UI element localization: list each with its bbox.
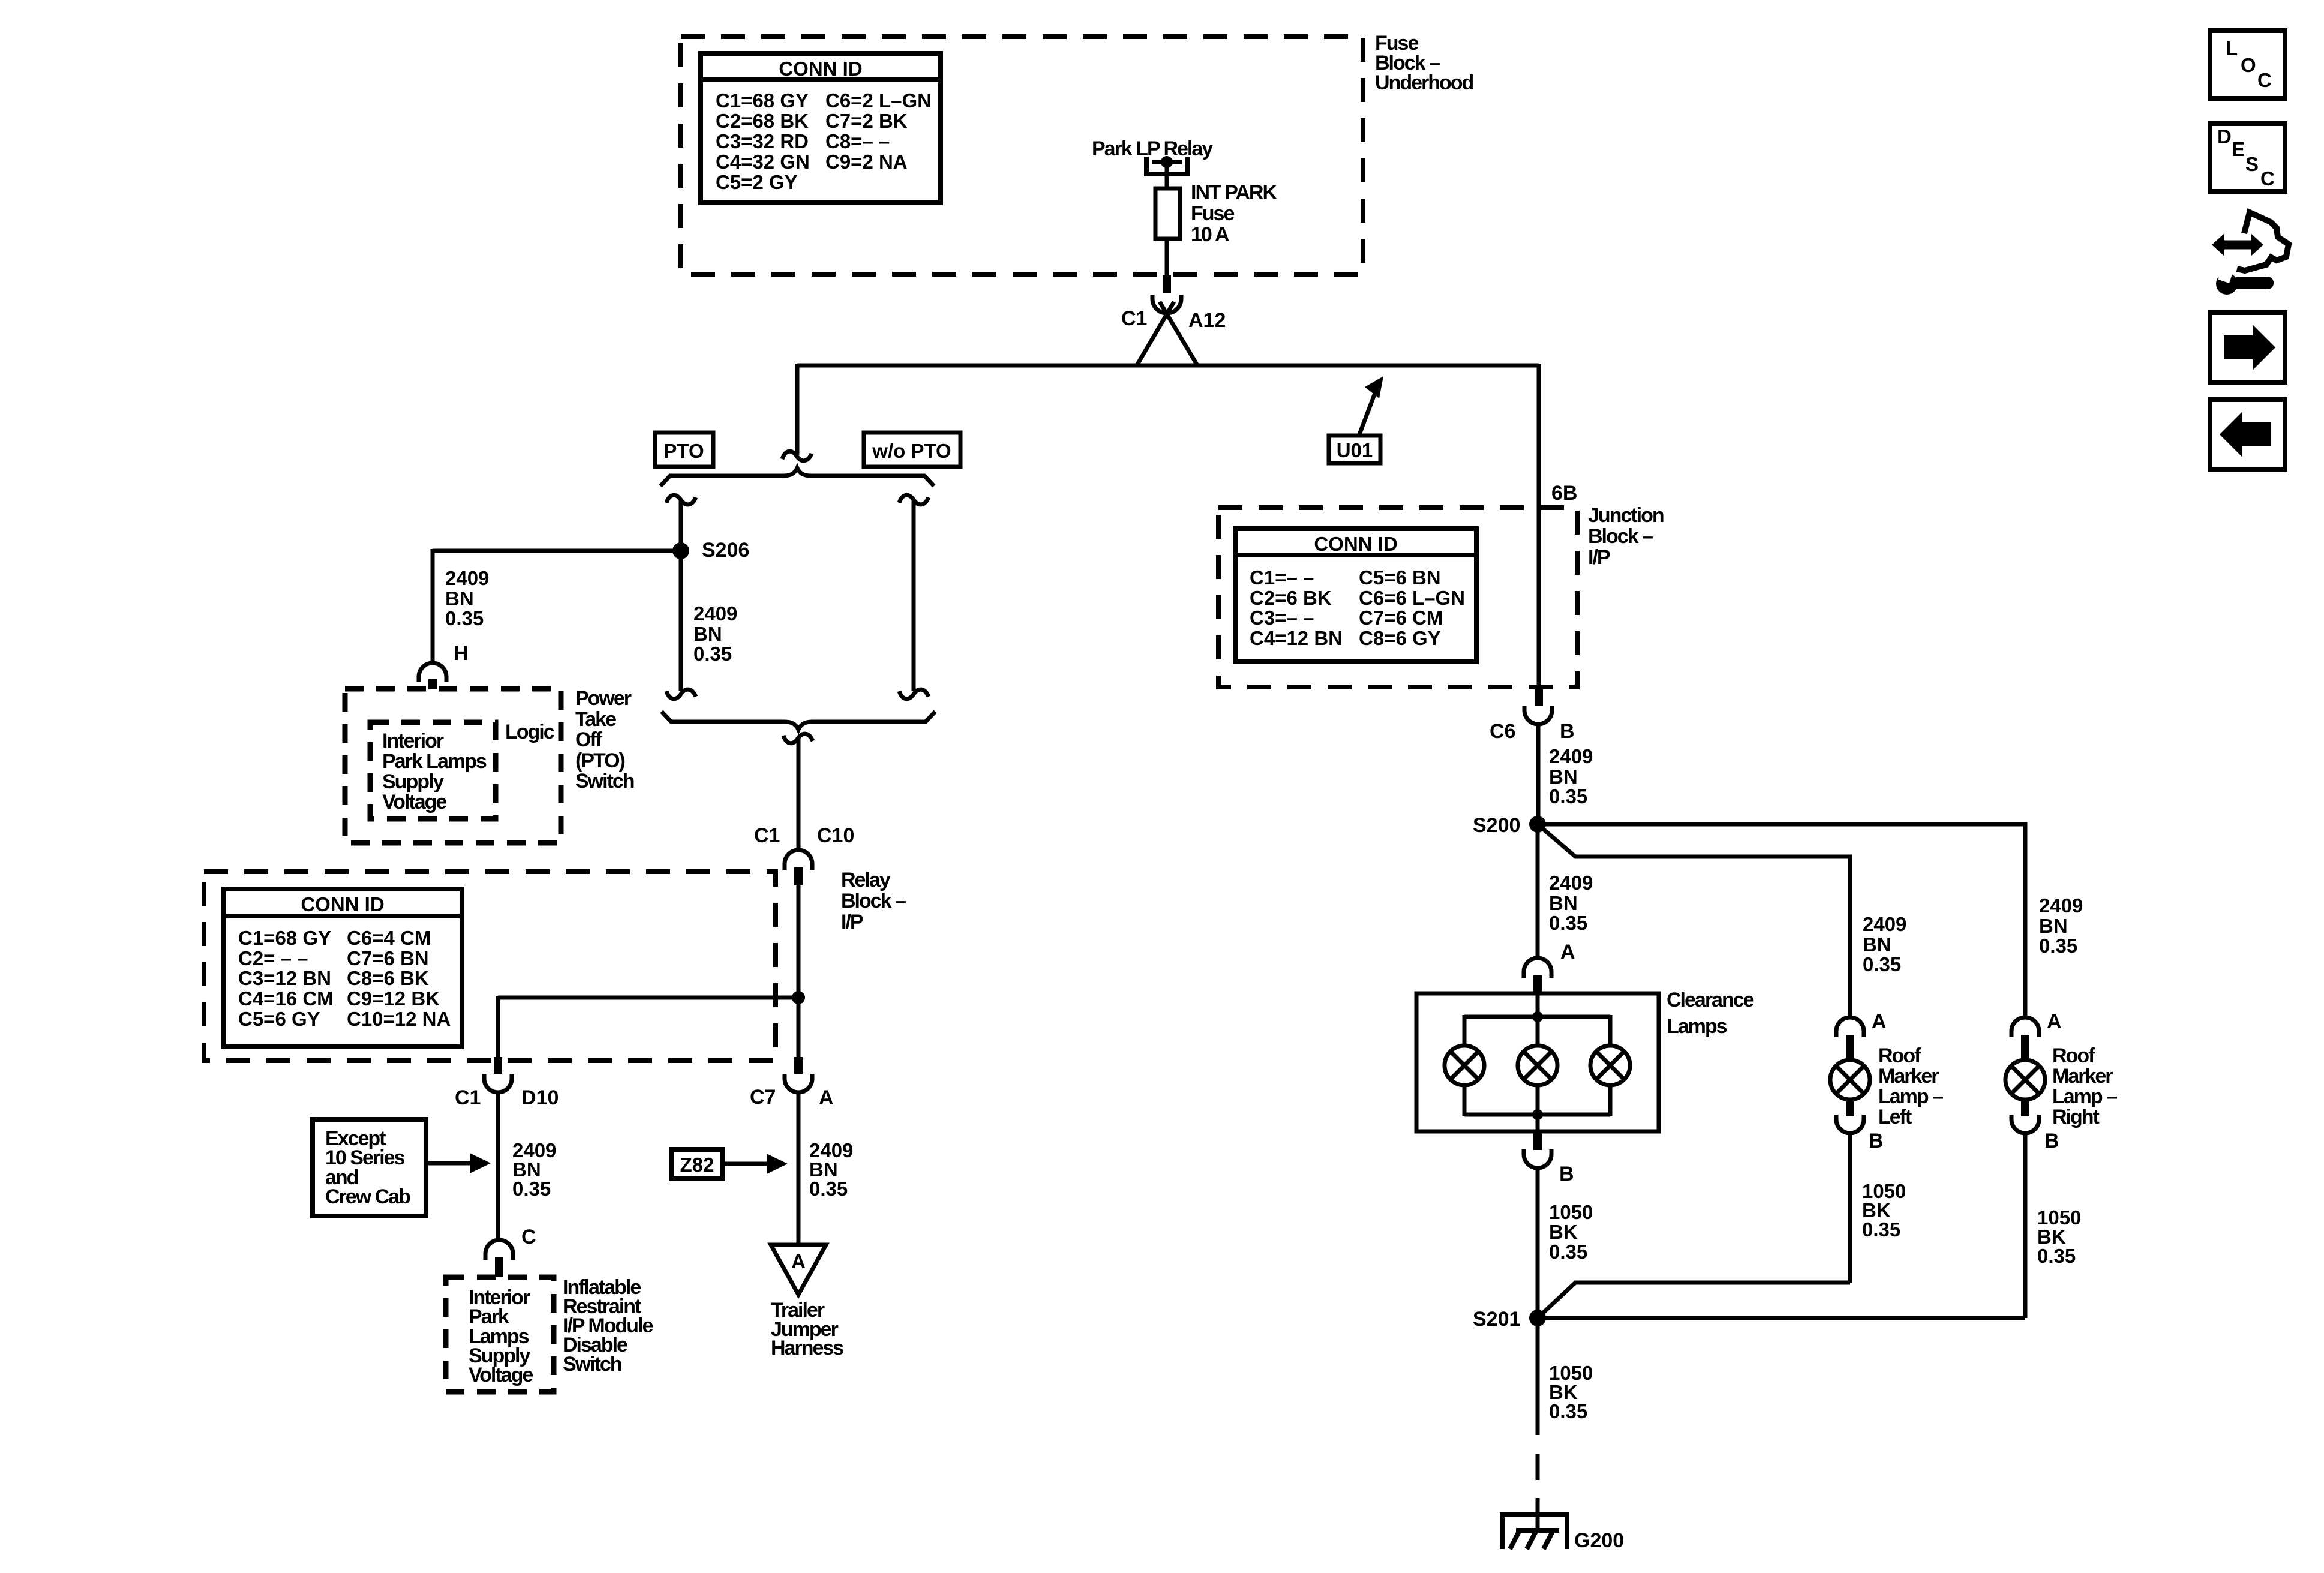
connector B cup (right marker): [2011, 1115, 2039, 1133]
brace top (options split): [660, 468, 934, 486]
U01 callout box: [1329, 436, 1380, 463]
svg-text:Marker: Marker: [2052, 1065, 2113, 1088]
svg-text:2409: 2409: [1863, 913, 1906, 935]
hook left top: [666, 495, 696, 505]
ground G200: [1502, 1506, 1567, 1549]
connector C7/A female cup: [785, 1074, 812, 1092]
connector B male pin (clearance): [1533, 1131, 1542, 1150]
connector C7/A male pin: [794, 1057, 803, 1074]
svg-text:Logic: Logic: [505, 721, 554, 743]
arrow Z82 to wire: [723, 1154, 788, 1174]
svg-text:S: S: [2245, 153, 2259, 175]
connector B cup (left marker): [1836, 1115, 1864, 1133]
svg-text:C3=– –: C3=– –: [1250, 607, 1314, 629]
label Relay Block - I/P: [841, 869, 906, 933]
CONN ID table (fuse block): [701, 53, 941, 203]
wire C6 to S200: [1536, 724, 1541, 818]
roof marker lamp left bulb: [1830, 1060, 1870, 1100]
wire X split right: [1160, 302, 1197, 365]
svg-text:Harness: Harness: [771, 1337, 843, 1359]
svg-text:Supply: Supply: [382, 770, 444, 793]
svg-text:C7=2 BK: C7=2 BK: [825, 110, 908, 132]
svg-text:C1=– –: C1=– –: [1250, 566, 1314, 589]
svg-text:Fuse: Fuse: [1191, 202, 1234, 225]
clearance lamp left: [1445, 1046, 1484, 1085]
connector H male pin: [428, 679, 437, 689]
svg-text:Crew Cab: Crew Cab: [325, 1185, 410, 1208]
svg-text:Switch: Switch: [563, 1353, 621, 1376]
wire relay to fuse: [1165, 162, 1169, 188]
roof marker lamp left B pin: [1846, 1100, 1854, 1116]
U01 arrow: [1359, 376, 1383, 434]
svg-text:A: A: [1560, 941, 1575, 963]
wire right branch down: [1537, 364, 1541, 687]
svg-text:C5=2 GY: C5=2 GY: [716, 171, 798, 193]
svg-text:C8=6 BK: C8=6 BK: [347, 967, 429, 989]
connector B female cup (clearance): [1524, 1149, 1551, 1168]
splice S201: [1529, 1310, 1546, 1326]
fuse block underhood dashed box: [681, 37, 1363, 274]
svg-text:Block –: Block –: [841, 890, 906, 912]
label Roof Marker Lamp - Left: [1878, 1044, 1943, 1128]
svg-text:Roof: Roof: [2052, 1044, 2095, 1067]
label 2409 BN 0.35 (H branch): [445, 567, 489, 629]
svg-text:Roof: Roof: [1878, 1044, 1921, 1067]
wire S206 to H: [433, 549, 681, 663]
label Power Take Off (PTO) Switch: [575, 687, 634, 792]
PTO switch dashed box: [345, 689, 561, 843]
icon LOC box: [2210, 31, 2285, 98]
fuse INT PARK 10A: [1155, 188, 1180, 239]
svg-text:C1: C1: [455, 1086, 481, 1109]
label Fuse Block - Underhood: [1375, 32, 1473, 94]
svg-text:A: A: [1872, 1010, 1887, 1033]
CONN ID table (relay block): [224, 889, 462, 1047]
svg-text:C4=16 CM: C4=16 CM: [238, 987, 334, 1010]
svg-text:Switch: Switch: [575, 770, 634, 792]
svg-text:C4=32 GN: C4=32 GN: [716, 151, 810, 173]
PTO option box: [655, 433, 713, 467]
clearance lamp bus bottom: [1464, 1085, 1610, 1131]
svg-text:C6: C6: [1490, 720, 1515, 743]
svg-text:Right: Right: [2052, 1106, 2100, 1128]
label 2409 BN 0.35 (C7 wire): [809, 1139, 853, 1200]
svg-text:D10: D10: [521, 1086, 559, 1109]
roof marker lamp right B pin: [2021, 1100, 2029, 1116]
label 1050 BK 0.35 (ground wire): [1549, 1362, 1593, 1422]
label INT PARK Fuse 10 A: [1191, 181, 1277, 246]
svg-text:Off: Off: [575, 728, 603, 751]
label Interior Park Lamps Supply Voltage (logic): [382, 730, 487, 813]
svg-text:C1=68 GY: C1=68 GY: [238, 927, 331, 949]
connector H female dome: [419, 663, 446, 682]
svg-text:C4=12 BN: C4=12 BN: [1250, 627, 1343, 649]
svg-text:Block –: Block –: [1588, 525, 1653, 548]
svg-text:C1: C1: [754, 824, 780, 847]
icon back arrow box: [2210, 400, 2285, 469]
svg-text:Lamp –: Lamp –: [1878, 1085, 1943, 1108]
clearance lamp bus top: [1464, 1011, 1610, 1046]
svg-text:G200: G200: [1574, 1529, 1624, 1552]
svg-text:C7: C7: [750, 1086, 776, 1109]
clearance lamp middle: [1518, 1046, 1557, 1085]
svg-text:L: L: [2226, 37, 2238, 59]
svg-text:Power: Power: [575, 687, 632, 710]
icon DESC box: [2210, 124, 2285, 191]
hook left bottom: [666, 689, 696, 699]
svg-text:C: C: [521, 1226, 536, 1248]
svg-text:O: O: [2241, 54, 2256, 76]
svg-text:Clearance: Clearance: [1667, 989, 1754, 1011]
label 1050 BK 0.35 (left marker): [1862, 1180, 1906, 1241]
svg-text:B: B: [1560, 720, 1575, 743]
svg-text:Underhood: Underhood: [1375, 71, 1473, 94]
svg-text:C: C: [2260, 167, 2275, 190]
interior park lamps supply voltage dashed box (PTO switch): [370, 722, 496, 819]
wire C1/D10 down: [496, 1092, 500, 1240]
svg-text:BN: BN: [1549, 892, 1578, 914]
connector A male pin (clearance): [1533, 975, 1542, 993]
wire through relay block: [797, 885, 801, 1057]
connector C1/D10 female cup: [484, 1074, 512, 1092]
wire merge to C1/C10: [797, 738, 801, 850]
label Trailer Jumper Harness: [771, 1299, 843, 1359]
wire left marker to S201: [1848, 1133, 1852, 1283]
svg-text:A: A: [791, 1250, 806, 1272]
svg-text:0.35: 0.35: [512, 1178, 551, 1200]
svg-text:C3=32 RD: C3=32 RD: [716, 130, 809, 152]
svg-text:0.35: 0.35: [693, 643, 732, 665]
svg-text:C: C: [2257, 69, 2272, 91]
svg-text:E: E: [2232, 138, 2245, 160]
trailer jumper harness triangle A: [771, 1245, 826, 1295]
relay block I/P dashed box: [204, 872, 776, 1061]
svg-text:I/P: I/P: [1588, 546, 1610, 569]
svg-text:Voltage: Voltage: [382, 791, 446, 813]
label Inflatable Restraint I/P Module Disable Switch: [563, 1276, 653, 1376]
roof marker lamp left pin: [1846, 1035, 1854, 1061]
svg-text:B: B: [1869, 1130, 1884, 1152]
svg-text:A: A: [2047, 1010, 2062, 1033]
wire horizontal bus: [797, 364, 1539, 368]
connector A female dome (clearance): [1524, 958, 1551, 978]
label 1050 BK 0.35 (clearance B): [1549, 1201, 1593, 1263]
Z82 callout box: [671, 1149, 723, 1179]
icon forward arrow box: [2210, 313, 2285, 382]
svg-text:Voltage: Voltage: [469, 1364, 533, 1386]
label Junction Block - I/P: [1588, 504, 1664, 569]
svg-text:Interior: Interior: [382, 730, 444, 752]
svg-text:INT PARK: INT PARK: [1191, 181, 1277, 204]
roof marker lamp right pin: [2021, 1035, 2029, 1061]
svg-text:C2=68 BK: C2=68 BK: [716, 110, 809, 132]
label 2409 BN 0.35 (clearance): [1549, 872, 1593, 934]
relay K (Park LP Relay) terminal: [1146, 156, 1188, 174]
roof marker lamp right: connector A dome: [2011, 1017, 2039, 1037]
svg-text:Lamps: Lamps: [1667, 1015, 1727, 1038]
svg-text:I/P: I/P: [841, 911, 863, 933]
svg-text:C8=6 GY: C8=6 GY: [1359, 627, 1441, 649]
svg-text:0.35: 0.35: [445, 607, 484, 629]
svg-text:C2= – –: C2= – –: [238, 947, 308, 969]
wire branch to C1/D10: [498, 996, 798, 1057]
clearance lamp right: [1590, 1046, 1630, 1085]
wire w/o PTO branch vertical: [912, 500, 916, 691]
wire clearance B to S201: [1536, 1168, 1540, 1318]
svg-text:0.35: 0.35: [2039, 935, 2077, 957]
wire C7/A down: [797, 1092, 801, 1245]
svg-text:S201: S201: [1473, 1308, 1520, 1331]
svg-text:C1=68 GY: C1=68 GY: [716, 89, 809, 112]
splice S200: [1529, 816, 1546, 833]
svg-text:C10=12 NA: C10=12 NA: [347, 1008, 451, 1030]
svg-text:Z82: Z82: [680, 1154, 714, 1176]
connector C1/A12 male pin: [1163, 275, 1171, 293]
svg-text:A: A: [819, 1086, 834, 1109]
svg-text:PTO: PTO: [663, 440, 704, 462]
wire into clearance lamps: [1536, 993, 1540, 1046]
wire right marker to S201: [2023, 1133, 2028, 1318]
svg-text:(PTO): (PTO): [575, 749, 625, 772]
connector C1/C10 male pin: [794, 867, 803, 885]
svg-text:C9=2 NA: C9=2 NA: [825, 151, 908, 173]
svg-text:BN: BN: [2039, 915, 2068, 937]
svg-text:0.35: 0.35: [1862, 1218, 1900, 1241]
arrow except box to wire: [426, 1153, 491, 1173]
wire left branch down: [795, 364, 800, 455]
wire S200 to clearance lamps: [1536, 824, 1540, 957]
svg-text:0.35: 0.35: [2037, 1245, 2076, 1267]
wire S201 down: [1536, 1318, 1540, 1435]
wire break curl (left branch): [782, 451, 812, 461]
svg-text:BN: BN: [1863, 933, 1891, 956]
wire dashed to ground: [1536, 1454, 1540, 1514]
svg-text:CONN ID: CONN ID: [1314, 533, 1397, 555]
wire break curl below merge: [783, 734, 813, 743]
hook right bottom: [899, 689, 929, 699]
svg-text:C2=6 BK: C2=6 BK: [1250, 587, 1332, 609]
svg-text:S206: S206: [702, 539, 749, 562]
label 1050 BK 0.35 (right marker): [2037, 1206, 2081, 1267]
svg-text:C1: C1: [1121, 307, 1147, 330]
svg-text:BN: BN: [693, 623, 722, 645]
icon hand with wrench: [2212, 212, 2289, 295]
svg-text:0.35: 0.35: [1549, 1241, 1587, 1263]
label 2409 BN 0.35 (D10 wire): [512, 1139, 556, 1200]
connector C1/C10 female dome: [785, 850, 812, 870]
svg-text:Lamp –: Lamp –: [2052, 1085, 2117, 1108]
svg-text:0.35: 0.35: [1549, 1400, 1587, 1422]
svg-text:6B: 6B: [1551, 482, 1577, 505]
svg-text:Junction: Junction: [1588, 504, 1664, 527]
junction dot in relay block: [792, 991, 805, 1004]
wire S201 to right marker: [1538, 1316, 2025, 1320]
svg-text:CONN ID: CONN ID: [301, 893, 384, 915]
connector C6/B male pin: [1535, 687, 1543, 706]
svg-text:Relay: Relay: [841, 869, 891, 891]
wire S201 to left marker: [1538, 1283, 1850, 1318]
label 2409 BN 0.35 (right marker): [2039, 894, 2083, 957]
label Interior Park Lamps Supply Voltage: [469, 1286, 533, 1386]
svg-text:0.35: 0.35: [1549, 912, 1587, 934]
connector C female dome: [485, 1240, 513, 1260]
splice S206: [672, 542, 689, 559]
svg-text:BK: BK: [1549, 1221, 1578, 1243]
svg-text:10 A: 10 A: [1191, 223, 1229, 246]
svg-text:2409: 2409: [693, 602, 737, 625]
connector C1/A12 female cup: [1152, 295, 1181, 313]
wire S200 to roof marker left: [1538, 824, 1850, 1019]
svg-text:U01: U01: [1337, 439, 1373, 461]
svg-text:2409: 2409: [1549, 872, 1593, 894]
label 2409 BN 0.35 (left marker): [1863, 913, 1906, 975]
CONN ID table (junction block): [1235, 529, 1476, 662]
clearance lamps box: [1416, 993, 1659, 1131]
connector C male pin: [495, 1257, 503, 1277]
wire S200 to roof marker right: [1538, 824, 2025, 1018]
svg-text:C7=6 BN: C7=6 BN: [347, 947, 429, 969]
svg-text:w/o PTO: w/o PTO: [872, 440, 951, 462]
svg-text:C10: C10: [817, 824, 854, 847]
svg-text:Park Lamps: Park Lamps: [382, 750, 487, 773]
brace bottom (options merge): [662, 712, 935, 730]
svg-text:A12: A12: [1188, 309, 1226, 332]
connector C6/B female cup: [1524, 706, 1552, 724]
svg-text:BN: BN: [1549, 766, 1578, 788]
svg-text:C5=6 GY: C5=6 GY: [238, 1008, 320, 1030]
hook right top: [899, 495, 929, 505]
svg-text:1050: 1050: [1549, 1201, 1593, 1223]
label 2409 BN 0.35 (C6 wire): [1549, 745, 1593, 807]
svg-text:0.35: 0.35: [809, 1178, 848, 1200]
svg-text:Park LP Relay: Park LP Relay: [1092, 137, 1213, 160]
svg-text:C6=2 L–GN: C6=2 L–GN: [825, 89, 932, 112]
wire fuse to connector: [1165, 239, 1169, 275]
svg-text:0.35: 0.35: [1549, 785, 1587, 807]
roof marker lamp right bulb: [2005, 1060, 2045, 1100]
w/o PTO option box: [864, 433, 960, 467]
svg-text:2409: 2409: [2039, 894, 2083, 917]
svg-text:C6=4 CM: C6=4 CM: [347, 927, 431, 949]
svg-text:B: B: [1559, 1163, 1574, 1185]
svg-text:D: D: [2217, 125, 2232, 148]
except 10 series callout box: [313, 1119, 426, 1216]
svg-text:C7=6 CM: C7=6 CM: [1359, 607, 1443, 629]
svg-text:Left: Left: [1878, 1106, 1912, 1128]
svg-text:2409: 2409: [445, 567, 489, 589]
svg-text:C8=– –: C8=– –: [825, 130, 890, 152]
svg-text:0.35: 0.35: [1863, 953, 1901, 975]
svg-text:C6=6 L–GN: C6=6 L–GN: [1359, 587, 1465, 609]
svg-text:2409: 2409: [1549, 745, 1593, 767]
label Roof Marker Lamp - Right: [2052, 1044, 2117, 1128]
label Clearance Lamps: [1667, 989, 1754, 1038]
svg-text:S200: S200: [1473, 814, 1520, 837]
label 2409 BN 0.35 (PTO branch): [693, 602, 737, 665]
svg-text:C9=12 BK: C9=12 BK: [347, 987, 440, 1010]
junction block I/P dashed box: [1218, 508, 1577, 687]
svg-text:CONN ID: CONN ID: [779, 58, 862, 80]
wire PTO branch vertical: [679, 500, 683, 691]
interior park lamps supply voltage dashed box (disable switch): [446, 1277, 554, 1392]
svg-text:Marker: Marker: [1878, 1065, 1939, 1088]
svg-text:Take: Take: [575, 708, 616, 731]
svg-text:BN: BN: [445, 587, 474, 610]
wire X split left: [1137, 302, 1174, 365]
svg-text:C5=6 BN: C5=6 BN: [1359, 566, 1441, 589]
svg-text:B: B: [2044, 1130, 2059, 1152]
roof marker lamp left: connector A dome: [1836, 1017, 1864, 1037]
connector C1/D10 male pin: [494, 1057, 502, 1074]
svg-text:C3=12 BN: C3=12 BN: [238, 967, 331, 989]
svg-text:H: H: [454, 642, 469, 665]
